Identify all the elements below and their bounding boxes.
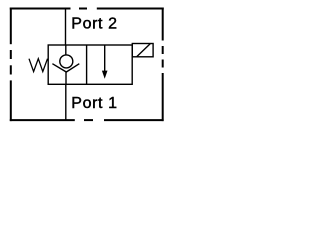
check valve upper stub wire [65,45,67,55]
cartridge envelope left edge lower segment [10,80,12,121]
spring [29,59,48,72]
valve body envelope V1 [48,45,132,84]
wire port 2 to valve body [65,9,67,46]
cartridge envelope bottom edge left segment [10,119,75,121]
cartridge envelope right edge upper segment [162,8,164,41]
check valve seat [52,64,79,72]
cartridge envelope top edge right segment [97,8,164,10]
cartridge envelope right edge dash 2 [162,60,164,68]
cartridge envelope left edge dash 2 [10,65,12,74]
cartridge envelope left edge dash 1 [10,50,12,59]
wire valve body to port 1 [65,84,67,120]
cartridge envelope right edge dash 1 [162,46,164,54]
check valve lower stub wire [65,71,67,84]
svg-text:Port 1: Port 1 [71,95,117,112]
cartridge envelope left edge upper segment [10,8,12,45]
check valve poppet ball [60,55,73,68]
valve body position divider [86,45,88,84]
flow path arrowhead [102,71,108,79]
cartridge envelope bottom edge dash [84,119,93,121]
cartridge envelope right edge lower segment [162,73,164,121]
solenoid box [132,44,153,57]
flow path arrow shaft [104,45,106,72]
svg-text:Port 2: Port 2 [71,16,117,33]
solenoid diagonal stroke [137,44,150,57]
cartridge envelope bottom edge right segment [104,119,164,121]
cartridge envelope top edge dash [79,8,87,10]
cartridge envelope top edge left segment [10,8,71,10]
